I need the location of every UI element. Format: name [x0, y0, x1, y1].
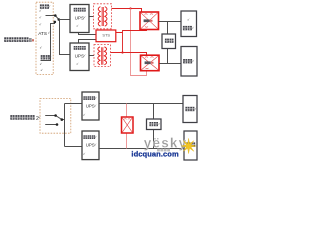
node bus A tap [129, 7, 131, 9]
ATS switch blade [55, 16, 59, 20]
UPS1b pilcrow [84, 114, 86, 116]
PDC3 box (crossed distribution box) [122, 117, 134, 133]
load box b2 (bottom right) [184, 131, 197, 160]
UPS2 box [70, 43, 89, 71]
watermark tiny 天极传媒 [157, 149, 170, 152]
svg-text:idcquan.com: idcquan.com [131, 150, 179, 159]
svg-text:2: 2 [36, 116, 39, 122]
负载 text load1 [183, 26, 192, 30]
switch contact b [56, 123, 59, 126]
switch blade 2 [56, 116, 65, 120]
UPS1b text 高频机 [83, 96, 95, 100]
svg-text:yësky: yësky [144, 136, 188, 151]
wire bus A tie (pale red vertical) [131, 9, 147, 76]
dual-corded load box (bottom diagram) [147, 119, 162, 130]
svg-text:STS: STS [102, 33, 110, 38]
wire bus to both UPS [65, 104, 83, 147]
switch contact a [54, 114, 57, 117]
switch contact generator [54, 21, 57, 24]
transformer T1 dashed red box [94, 4, 112, 29]
load box 1 (top right) [181, 11, 197, 37]
wire ATS output down to UPS2 [60, 20, 71, 55]
ATS dashed enclosure (orange) [36, 2, 53, 74]
wire PDC2 output [159, 63, 181, 65]
UPS2 text 高频式 [74, 46, 86, 50]
PDC2 box (crossed distribution box) [141, 55, 160, 70]
svg-text:UPS: UPS [75, 54, 84, 59]
wire UPS1 down to STS input 1 [79, 33, 97, 35]
PDC1 tiny label [144, 19, 150, 22]
pilcrow after 市电 [49, 5, 51, 7]
pilcrow marks (empty lines) [40, 10, 42, 12]
wire input 2 [45, 124, 57, 126]
pilcrow after 油机 [50, 56, 52, 58]
负载 text load2 [183, 59, 192, 63]
transformer T1 windings [98, 7, 107, 27]
PDC1 box (crossed distribution box) [140, 12, 159, 30]
wire UPS2 up to STS input 2 [79, 40, 97, 44]
wire STS output tie [116, 30, 147, 53]
load box 2 (right) [181, 47, 197, 77]
UPS1b box [82, 92, 99, 120]
caption tail mark [32, 39, 34, 41]
transformer T2 dashed red box [94, 45, 111, 67]
UPS2b pilcrow [84, 153, 86, 155]
wire T2 output to PDC2 [111, 53, 147, 56]
UPS2b text 高频机 [83, 135, 95, 139]
wire branch to dual-corded load (top) [167, 22, 169, 35]
wire UPS1 to transformer T1 [89, 16, 94, 18]
wire input 1 [45, 115, 55, 117]
pilcrow in load1 [188, 19, 190, 21]
pilcrow mark [40, 46, 42, 48]
label 油机 (generator) [41, 55, 50, 59]
wire tie through dual load [153, 104, 155, 149]
wire UPS2 to transformer T2 [89, 55, 94, 57]
STS box [96, 30, 116, 42]
label: 双机双总线1 (left caption, fake CJK glyphs) [4, 37, 31, 42]
wire bus 1 (top) [99, 103, 183, 105]
svg-text:ATS: ATS [38, 31, 47, 36]
wire generator loop [41, 22, 55, 61]
wire red tie through PDC3 [126, 104, 128, 149]
label 市电 (mains) [40, 4, 49, 8]
wire ATS output to UPS1 [59, 19, 70, 21]
pilcrow marks below generator [40, 63, 42, 65]
负载 text [165, 39, 174, 43]
watermark yellow star [181, 138, 196, 153]
ATS dashed enclosure 2 (orange) [40, 99, 71, 134]
label: 双机双总线 2 (left caption) [10, 115, 34, 120]
svg-text:UPS: UPS [86, 104, 95, 109]
switch contact mains [54, 14, 57, 17]
wire branch to dual-corded load (bottom) [167, 49, 169, 64]
UPS1 pilcrow [77, 25, 79, 27]
UPS1 text 高频式 [74, 8, 86, 12]
wire bus 2 (bottom) [99, 148, 184, 150]
transformer T2 windings [98, 47, 107, 65]
pilcrow after ATS [48, 32, 50, 34]
UPS1 box [70, 5, 89, 33]
UPS2 pilcrow [77, 63, 79, 65]
wire T1 output to PDC1 [112, 9, 142, 13]
PDC2 tiny label [145, 61, 151, 64]
wire PDC1 output [159, 21, 182, 23]
watermark idcquan.com [131, 150, 179, 159]
svg-text:UPS: UPS [86, 143, 95, 148]
UPS2b box [82, 131, 99, 160]
svg-text:UPS: UPS [75, 15, 84, 20]
load box b1 (top right) [183, 96, 197, 123]
dual-corded load box (middle) [162, 34, 176, 49]
switch common node 2 [61, 118, 64, 121]
switch common node [58, 18, 61, 21]
wire mains to switch [46, 15, 56, 17]
node STS tie to bus B [121, 51, 123, 53]
